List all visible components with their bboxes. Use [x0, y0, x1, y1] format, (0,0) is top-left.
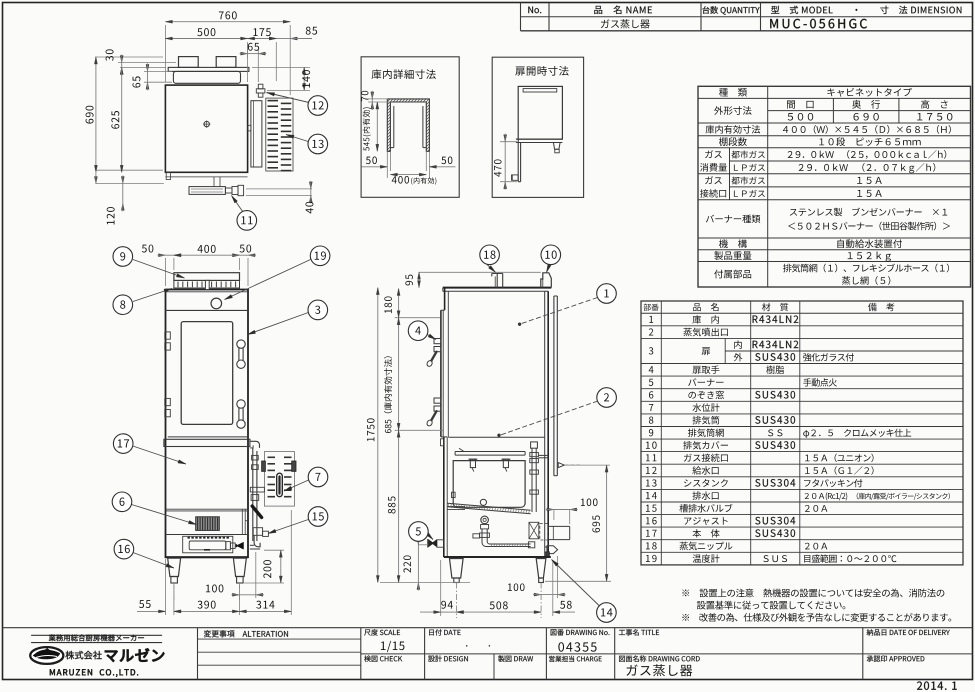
balloon 4: [427, 335, 436, 340]
front exhaust duct (9): [174, 273, 240, 281]
parts table: [641, 301, 963, 565]
side door: [440, 310, 442, 437]
header table: No/name/qty/model: [520, 3, 522, 31]
470 dim: [500, 141, 517, 143]
plan door knob: [204, 121, 209, 126]
right pipe column: [531, 442, 538, 448]
front bottom dims: [165, 559, 167, 615]
hinges: [165, 332, 171, 339]
tank box: [453, 461, 525, 508]
balloon 16: [133, 553, 174, 569]
gas connection dashed + box: [540, 524, 549, 541]
side front gas cock (5): [437, 540, 444, 547]
chimney (10): [541, 273, 552, 288]
side rear duct: [553, 296, 555, 476]
balloon 5: [428, 535, 433, 540]
detail dims: [368, 98, 388, 100]
chamber rails: [393, 106, 395, 148]
balloon 9: [133, 260, 185, 279]
220 dim: [418, 544, 428, 546]
balloon 18: [487, 265, 496, 273]
side chamber floor: [448, 436, 544, 438]
tank clips: [470, 459, 475, 467]
gauge lower pipe + lever: [250, 487, 264, 492]
front legs: [168, 558, 181, 576]
200 dim: [244, 582, 284, 584]
plan right side panel: [251, 101, 262, 167]
balloon 13: [286, 135, 308, 142]
balloon 10: [547, 265, 550, 273]
plan top plate: [168, 67, 249, 71]
balloon 8: [133, 289, 172, 302]
door-open detail box: [492, 57, 583, 197]
balloon 11: [232, 196, 244, 213]
balloon 2 dashed: [501, 401, 598, 435]
balloon 6: [132, 505, 197, 525]
pump assy: [481, 516, 489, 524]
door-open body: [518, 86, 562, 139]
side right dims: [553, 510, 555, 521]
door handles: [239, 344, 243, 364]
interior detail box: [361, 57, 459, 198]
front view body: [166, 290, 249, 558]
balloon 15: [268, 520, 308, 534]
plan burner boxes: [179, 57, 199, 68]
balloon 14: [552, 560, 600, 606]
side legs: [450, 559, 464, 579]
corrugated pipe to tank: [448, 503, 531, 510]
hatched chamber walls: [387, 99, 429, 151]
front top dims: [165, 258, 167, 286]
balloon 17: [133, 446, 186, 464]
notes: [682, 589, 944, 598]
balloon 19: [225, 260, 311, 300]
plan flexible hose (13): [266, 98, 293, 171]
balloon 7: [284, 480, 309, 491]
tank lid: [455, 451, 525, 453]
plan view body: [165, 85, 247, 172]
steam nipple (18): [496, 273, 498, 287]
plan bottom drain assy (11): [165, 176, 247, 178]
spec table: [698, 86, 971, 287]
inlet arrow at back: [558, 463, 564, 468]
side view outline: [443, 287, 552, 289]
front door + glass (3): [181, 322, 233, 425]
front top band + knob (19): [166, 309, 249, 311]
side door handles (4): [434, 339, 441, 344]
leg: [553, 143, 560, 150]
bottom drain cone (14): [547, 546, 558, 554]
front burner panel: [166, 534, 249, 536]
side front hinge bumps: [441, 439, 444, 446]
maruzen logo: [30, 647, 63, 664]
front right piping (15): [250, 441, 260, 448]
plan gas cock (12): [258, 84, 263, 89]
title block: [3, 627, 973, 629]
front mid band lines: [166, 508, 249, 510]
side bottom dims: [440, 560, 442, 616]
front drip tray: [168, 436, 248, 438]
side left dims: [419, 271, 541, 273]
balloon 3: [248, 313, 309, 335]
front vent (6): [196, 517, 220, 531]
front bottom edge: [166, 556, 249, 558]
balloon 1 dashed: [522, 298, 598, 324]
plan dims: [164, 25, 166, 82]
balloon 12: [267, 93, 310, 103]
open door hanging: [517, 139, 519, 182]
water gauge (7): [264, 452, 294, 507]
